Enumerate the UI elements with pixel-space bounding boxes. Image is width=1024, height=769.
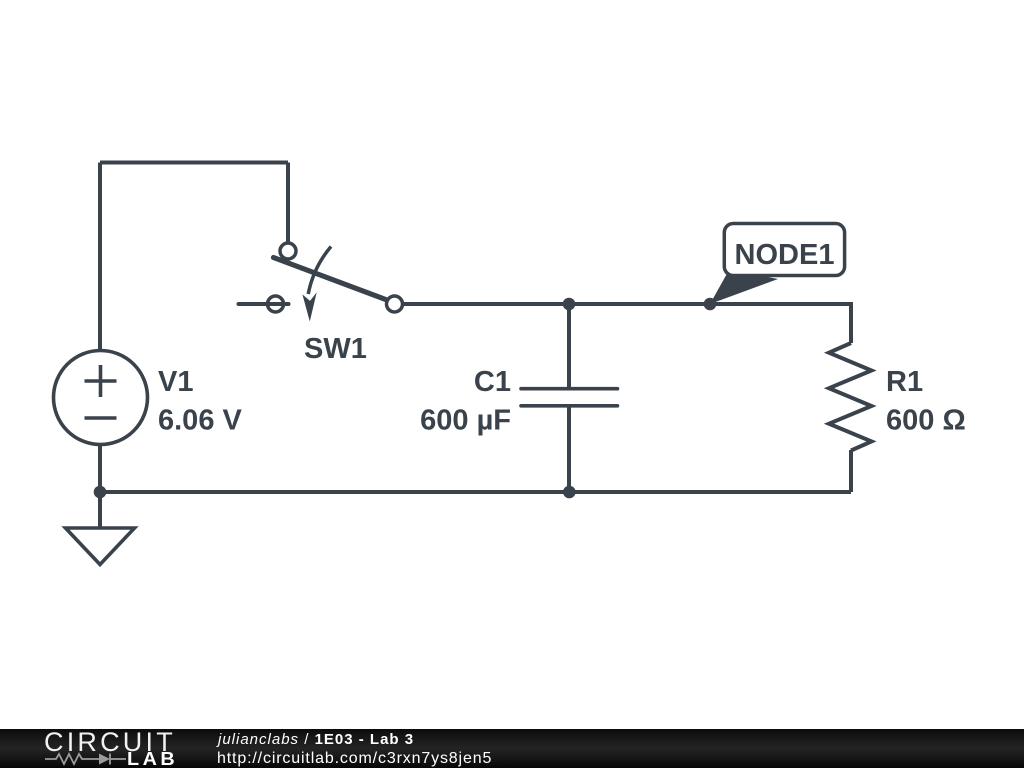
svg-text:NODE1: NODE1 bbox=[735, 239, 835, 271]
wire: bottom rail to ground bbox=[98, 492, 102, 528]
SW1 middle contact circle bbox=[268, 296, 284, 312]
footer url text bbox=[217, 750, 492, 768]
wire: switch output to capacitor junction bbox=[394, 302, 569, 306]
C1 top lead bbox=[567, 304, 571, 389]
NODE1 pointer dot bbox=[704, 298, 717, 311]
junction dot at capacitor top bbox=[563, 298, 576, 311]
wire: capacitor junction to NODE1 bbox=[569, 302, 710, 306]
svg-text:600 Ω: 600 Ω bbox=[886, 405, 966, 437]
SW1 left stub wire bbox=[239, 302, 289, 306]
logo resistor-diode art bbox=[44, 751, 174, 767]
SW1 lever bbox=[274, 258, 388, 301]
svg-text:C1: C1 bbox=[474, 366, 511, 398]
C1 top plate bbox=[521, 387, 618, 391]
SW1 top terminal circle bbox=[280, 243, 296, 259]
wire: drop to switch top terminal bbox=[286, 163, 290, 244]
CircuitLab logo wordmark CIRCUIT bbox=[44, 727, 176, 757]
logo wordmark LAB bbox=[127, 749, 178, 769]
NODE1 pointer triangle bbox=[710, 270, 778, 304]
wire: NODE1 to top-right corner and down to R1 bbox=[710, 304, 851, 343]
NODE1 box bbox=[724, 224, 844, 276]
voltage source V1 bbox=[54, 351, 148, 445]
capacitor C1 bbox=[521, 304, 618, 492]
wire: left vertical from top rail to V1 top bbox=[98, 163, 102, 352]
footer title text bbox=[218, 731, 414, 748]
node NODE1 bbox=[704, 224, 845, 311]
footer bar bbox=[0, 729, 1024, 768]
junction dot at capacitor bottom bbox=[563, 486, 576, 499]
C1 bottom lead bbox=[567, 406, 571, 492]
svg-text:R1: R1 bbox=[886, 366, 923, 398]
ground bbox=[66, 528, 135, 565]
switch SW1 bbox=[239, 243, 403, 322]
SW1 toggle arc bbox=[308, 247, 331, 295]
svg-text:6.06 V: 6.06 V bbox=[158, 405, 242, 437]
svg-text:600 µF: 600 µF bbox=[420, 405, 511, 437]
SW1 arrow head bbox=[302, 292, 316, 321]
wire: V1 bottom to bottom rail bbox=[98, 444, 102, 492]
junction dot at V1 bottom bbox=[94, 486, 107, 499]
resistor R1 bbox=[829, 343, 872, 451]
C1 bottom plate bbox=[521, 404, 618, 408]
svg-text:SW1: SW1 bbox=[304, 333, 367, 365]
SW1 right terminal circle bbox=[387, 296, 403, 312]
wire: bottom rail bbox=[100, 490, 851, 494]
wire: R1 bottom to bottom rail bbox=[849, 450, 853, 492]
svg-text:V1: V1 bbox=[158, 366, 193, 398]
wire: top horizontal rail bbox=[100, 161, 288, 165]
